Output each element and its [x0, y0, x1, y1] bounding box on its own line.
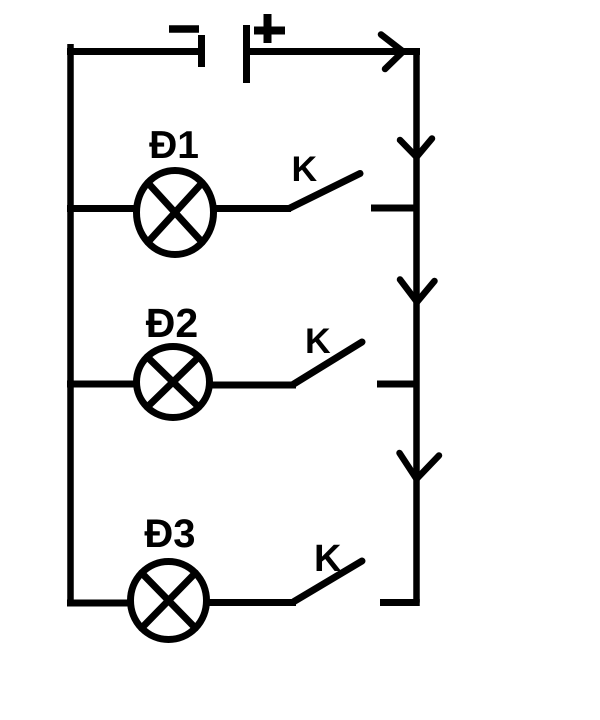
wire: top lead from battery positive plate to right bus: [250, 48, 420, 55]
wire: top lead from left bus to battery negative plate: [67, 48, 199, 55]
svg-text:K: K: [292, 149, 318, 189]
lamp Đ3: [131, 562, 207, 640]
switch K2 lever (open): [293, 342, 362, 385]
wire: left bus to lamp Đ2: [67, 381, 137, 388]
switch K3 lever (open): [294, 561, 362, 602]
battery negative plate: [198, 35, 205, 67]
svg-text:K: K: [314, 538, 342, 580]
label Đ1: [149, 124, 199, 167]
current direction arrow 3 on right bus: [400, 453, 440, 479]
current direction arrow on top wire: [381, 35, 403, 70]
svg-text:K: K: [305, 321, 331, 361]
label K (switch 1): [292, 149, 318, 189]
current direction arrow 2 on right bus: [400, 280, 435, 303]
wire: lamp Đ2 to switch K2 pivot: [211, 382, 296, 389]
battery negative terminal label -: [169, 25, 199, 33]
label K (switch 3): [314, 538, 342, 580]
wire: bottom lead from left bus to lamp Đ3: [67, 600, 131, 607]
label Đ2: [146, 300, 198, 346]
lamp Đ1: [137, 171, 214, 255]
lamp Đ2: [137, 347, 210, 418]
battery positive terminal label +: [254, 14, 285, 43]
svg-text:Đ3: Đ3: [144, 512, 195, 556]
wire: switch K1 fixed contact to right bus: [371, 205, 420, 212]
wire: switch K2 fixed contact to right bus: [377, 381, 420, 388]
label K (switch 2): [305, 321, 331, 361]
svg-text:Đ1: Đ1: [149, 124, 199, 167]
wire: left vertical bus: [67, 44, 74, 603]
current direction arrow 1 on right bus: [400, 139, 432, 158]
svg-text:Đ2: Đ2: [146, 300, 198, 346]
wire: left bus to lamp Đ1: [67, 205, 137, 212]
wire: lamp Đ3 to switch K3 pivot: [207, 599, 296, 606]
battery positive plate: [243, 25, 250, 83]
wire: lamp Đ1 to switch K1 pivot: [213, 205, 291, 212]
wire: switch K3 fixed contact foot of right bus: [380, 599, 420, 606]
wire: right vertical bus: [413, 48, 420, 603]
label Đ3: [144, 512, 195, 556]
switch K1 lever (open): [289, 174, 360, 209]
